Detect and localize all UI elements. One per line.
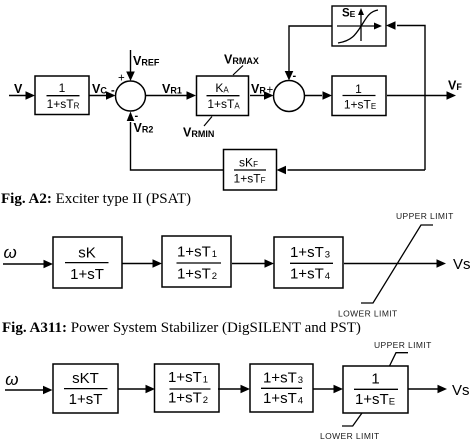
svg-text:sK: sK (78, 245, 96, 262)
label UPPER LIMIT (396, 211, 454, 221)
node VRMAX label (224, 53, 259, 67)
wire VR (250, 91, 274, 100)
svg-text:V: V (14, 82, 23, 96)
VRMAX callout line (233, 66, 243, 76)
svg-text:-: - (293, 70, 297, 82)
block 1/(1+sTE) (332, 76, 386, 116)
node VR1 label (162, 82, 182, 96)
label UPPER LIMIT (374, 340, 432, 350)
svg-text:Vs: Vs (453, 256, 471, 273)
block (1+sT3)/(1+sT4) (274, 237, 343, 288)
node VRMIN label (183, 126, 214, 140)
wire to lead-lag 2 (232, 259, 274, 268)
minus sign at SE input of summer 2 (293, 70, 297, 82)
label LOWER LIMIT (338, 309, 398, 319)
block sKT/(1+sT) (53, 364, 118, 413)
wire Vs output (408, 385, 447, 394)
block (1+sT3)/(1+sT4) (250, 364, 313, 412)
wire summer 2 to exciter block (305, 91, 333, 100)
svg-text:LOWER LIMIT: LOWER LIMIT (320, 431, 380, 441)
svg-text:1+sT: 1+sT (70, 266, 104, 283)
lower limit callout (342, 413, 362, 426)
wire VR1 (146, 91, 196, 100)
svg-text:1+sT: 1+sT (69, 391, 103, 408)
caption Fig. A2 (1, 191, 191, 207)
node omega label (5, 370, 18, 389)
svg-text:LOWER LIMIT: LOWER LIMIT (338, 309, 398, 319)
node VR label (251, 82, 266, 96)
minus sign at VC input of summer 1 (111, 85, 115, 97)
svg-text:1: 1 (371, 371, 379, 388)
minus sign at VR2 input of summer 1 (135, 110, 139, 122)
svg-text:UPPER LIMIT: UPPER LIMIT (396, 211, 454, 221)
wire VF output (387, 91, 456, 100)
svg-text:+: + (118, 73, 125, 85)
wire feedback from sKF block to summer 1 (127, 112, 224, 171)
wire VREF (126, 50, 135, 81)
svg-text:UPPER LIMIT: UPPER LIMIT (374, 340, 432, 350)
plus sign at VR input of summer 2 (267, 85, 274, 97)
svg-text:ω: ω (5, 370, 18, 389)
block 1/(1+sTE) (343, 366, 408, 413)
svg-text:Fig. A311: Power System Stabil: Fig. A311: Power System Stabilizer (DigS… (2, 320, 361, 336)
label LOWER LIMIT (320, 431, 380, 441)
caption Fig. A311 (2, 320, 361, 336)
wire feedback into sKF block (277, 166, 426, 175)
node Vs label (453, 256, 471, 273)
wire V input (9, 91, 35, 100)
upper limit callout (390, 353, 409, 366)
svg-text:sKT: sKT (72, 370, 99, 387)
svg-text:SE: SE (342, 8, 356, 20)
svg-text:Vs: Vs (452, 382, 470, 399)
node VR2 label (134, 121, 154, 135)
wire feedback from output up to SE block (386, 21, 425, 170)
svg-text:Fig. A2: Exciter type II (PSAT: Fig. A2: Exciter type II (PSAT) (1, 191, 191, 207)
svg-text:1: 1 (59, 81, 66, 95)
wire omega input (5, 386, 53, 395)
wire to lead-lag 1 (118, 385, 155, 394)
block (1+sT1)/(1+sT2) (155, 364, 220, 412)
node omega label (4, 243, 17, 262)
node VC label (92, 82, 107, 96)
wire to lead-lag 2 (218, 385, 250, 394)
saturation block SE (332, 6, 386, 46)
node VF label (448, 79, 462, 93)
plus sign at VREF input (118, 73, 125, 85)
summing junction S1 (116, 81, 146, 111)
block sKF/(1+sTF) (224, 150, 277, 191)
node Vs label (452, 382, 470, 399)
block sK/(1+sT) (53, 237, 122, 288)
node V label (14, 82, 23, 96)
summing junction S2 (274, 81, 305, 112)
svg-text:1: 1 (355, 82, 362, 96)
block (1+sT1)/(1+sT2) (162, 236, 231, 287)
wire Vs output (344, 259, 446, 268)
svg-text:ω: ω (4, 243, 17, 262)
VRMIN callout line (204, 117, 212, 127)
wire omega input (3, 260, 53, 269)
wire to lead-lag 1 (122, 259, 162, 268)
wire to exciter block (313, 385, 343, 394)
block 1/(1+sTR) (35, 76, 89, 115)
limiter symbol (361, 225, 433, 303)
node VREF label (133, 54, 160, 68)
wire from SE block down into summer 2 (285, 26, 332, 81)
block KA/(1+sTA) (197, 76, 249, 116)
wire VC (89, 91, 116, 100)
